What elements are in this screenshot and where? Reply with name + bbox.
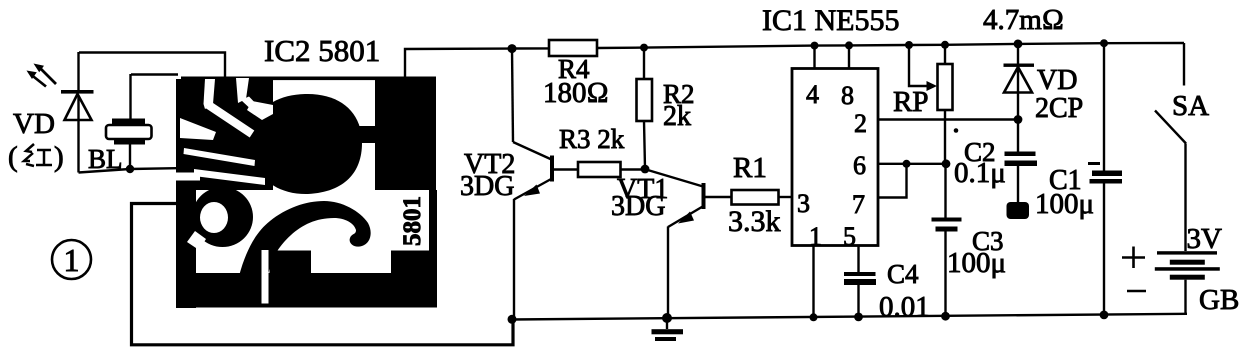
svg-text:3: 3 xyxy=(797,189,810,218)
wire pin 2 to diode node xyxy=(878,118,1018,120)
svg-text:6: 6 xyxy=(853,151,866,180)
resistor R4 xyxy=(549,40,597,56)
junction diode VD / top rail xyxy=(1014,40,1023,49)
svg-text:2k: 2k xyxy=(663,101,691,132)
figure number 1 xyxy=(52,240,91,279)
resistor R3 xyxy=(578,162,621,177)
junction VD/BL node xyxy=(126,165,134,173)
LED VD (red) xyxy=(27,52,94,173)
battery plus sign xyxy=(1122,247,1145,269)
junction pin6/RP/C3 xyxy=(942,159,951,168)
svg-text:(: ( xyxy=(8,141,18,173)
capacitor C1 xyxy=(1088,43,1122,315)
junction C4 / bottom rail xyxy=(854,313,863,322)
svg-text:7: 7 xyxy=(852,190,865,219)
diode VD 2CP xyxy=(1004,44,1035,152)
piezo sounder BL xyxy=(106,74,152,169)
junction pin 4 / top rail xyxy=(811,42,819,50)
wire R3 to node xyxy=(621,168,646,170)
svg-text:2: 2 xyxy=(854,109,867,138)
svg-text:SA: SA xyxy=(1172,90,1209,122)
svg-text:IC2 5801: IC2 5801 xyxy=(264,33,380,68)
wire pin 8 lead xyxy=(848,45,850,68)
junction C1 / bottom rail xyxy=(1100,311,1109,320)
junction VT2 emitter / bottom rail xyxy=(508,315,517,324)
capacitor C2 xyxy=(1005,152,1038,220)
junction RP wiper / top rail xyxy=(905,41,913,49)
svg-text:3.3k: 3.3k xyxy=(728,205,781,238)
battery minus sign xyxy=(1127,290,1146,293)
wire VD cathode / BL bottom to IC2 module xyxy=(79,168,177,172)
svg-text:R1: R1 xyxy=(733,152,767,184)
junction RP / top rail xyxy=(941,41,949,49)
svg-text:RP: RP xyxy=(893,86,928,118)
svg-text:0.1μ: 0.1μ xyxy=(954,157,1006,189)
svg-text:100μ: 100μ xyxy=(1035,188,1094,220)
potentiometer RP xyxy=(909,45,953,164)
wire R1 to pin 3 xyxy=(779,196,793,198)
wire pin 1 lead xyxy=(812,246,814,318)
svg-text:): ) xyxy=(54,141,64,173)
svg-text:R3 2k: R3 2k xyxy=(559,124,625,154)
timer IC1 NE555 xyxy=(792,69,878,246)
junction VT2 collector / top rail xyxy=(508,44,517,53)
junction ground / bottom rail xyxy=(662,313,672,323)
svg-text:1: 1 xyxy=(809,222,822,251)
svg-text:3DG: 3DG xyxy=(611,191,665,222)
node R2/R3/VT1 collector xyxy=(641,165,650,174)
wire pin 6 to RP/C3 node xyxy=(878,163,946,165)
junction pin 8 / top rail xyxy=(845,41,853,49)
junction R2 / top rail xyxy=(640,44,648,52)
junction pin 2 / diode VD node xyxy=(1014,115,1023,124)
svg-text:VD: VD xyxy=(13,108,55,140)
svg-text:5: 5 xyxy=(843,222,856,251)
IC2 5801 chip-on-board module xyxy=(176,77,437,309)
wire from LED VD anode up and right to IC2 module top xyxy=(79,53,225,79)
wire pin 7 tie to pin 6 xyxy=(878,164,907,198)
svg-text:GB: GB xyxy=(1199,284,1239,316)
svg-text:C4: C4 xyxy=(887,259,919,289)
resistor R1 xyxy=(732,190,779,205)
wire pin 4 lead xyxy=(813,46,815,69)
svg-text:5801: 5801 xyxy=(399,196,426,246)
label (red) xyxy=(8,141,64,173)
svg-text:IC1 NE555: IC1 NE555 xyxy=(762,4,900,37)
wire IC2 module left to bottom ground rail xyxy=(132,204,514,345)
svg-text:1: 1 xyxy=(64,242,80,278)
wire bottom ground rail xyxy=(511,314,1187,320)
svg-text:VD: VD xyxy=(1037,65,1077,96)
capacitor C4 xyxy=(844,246,876,318)
wire top supply rail left segment xyxy=(405,48,549,78)
transistor VT2 xyxy=(512,49,578,320)
switch SA xyxy=(1155,43,1186,251)
scan speck xyxy=(954,128,959,133)
svg-text:4.7mΩ: 4.7mΩ xyxy=(983,4,1064,36)
junction pin 1 / bottom rail xyxy=(810,313,818,321)
junction C3 / bottom rail xyxy=(941,312,950,321)
svg-text:3V: 3V xyxy=(1187,223,1223,255)
battery GB xyxy=(1155,251,1220,314)
svg-text:0.01: 0.01 xyxy=(879,291,930,323)
svg-text:8: 8 xyxy=(841,81,854,110)
ground symbol xyxy=(652,318,684,341)
transistor VT1 xyxy=(646,170,732,319)
svg-text:180Ω: 180Ω xyxy=(543,77,609,109)
wire BL top to IC2 module left edge xyxy=(131,73,178,75)
svg-text:2CP: 2CP xyxy=(1035,93,1083,124)
junction pin6/pin7 xyxy=(903,160,911,168)
svg-text:4: 4 xyxy=(806,80,819,109)
capacitor C3 xyxy=(932,164,962,316)
junction C1 / top rail xyxy=(1100,39,1108,47)
svg-text:3DG: 3DG xyxy=(460,171,514,202)
svg-text:100μ: 100μ xyxy=(947,247,1006,279)
resistor R2 xyxy=(637,48,653,168)
wire top supply rail right segment xyxy=(597,43,1184,48)
